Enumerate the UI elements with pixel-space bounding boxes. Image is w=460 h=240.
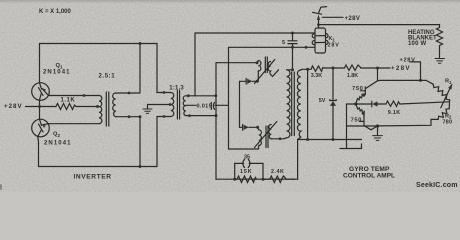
wire to R1 wiper with arrow xyxy=(400,102,450,104)
svg-text:5V: 5V xyxy=(319,98,326,104)
svg-text:1:1.3: 1:1.3 xyxy=(169,85,184,91)
diode D2 xyxy=(240,125,258,131)
junction node xyxy=(279,137,282,140)
wire T4 right bottom to output rail xyxy=(297,140,299,180)
junction node xyxy=(306,138,309,141)
junction node xyxy=(256,126,259,129)
mag-amp MA1 core xyxy=(264,57,266,73)
transistor Q4 (lower 750) xyxy=(356,104,378,130)
wire lower return y=126 xyxy=(347,125,378,127)
wire rail C y=62.7 xyxy=(216,62,258,64)
transformer T1 primary winding (left) xyxy=(99,96,102,124)
svg-text:780: 780 xyxy=(443,119,453,125)
mag-amp MA1 control winding (right) xyxy=(268,62,270,75)
junction node xyxy=(376,67,379,70)
wire x=228.5 vertical railB down to magamp2 xyxy=(229,47,259,149)
transformer T1 core xyxy=(105,92,107,126)
svg-text:3.3K: 3.3K xyxy=(311,73,322,79)
wire T2 secondary top tap xyxy=(186,95,216,97)
junction node xyxy=(233,178,236,181)
junction node xyxy=(128,92,131,95)
wire Q1 collector vertical to top rail xyxy=(39,44,41,83)
svg-text:K1: K1 xyxy=(329,36,336,42)
transformer T4 core xyxy=(291,72,293,136)
resistor 1.1K xyxy=(26,104,100,110)
wire collector to bridge top y=80.4 xyxy=(378,79,421,81)
svg-text:2.5:1: 2.5:1 xyxy=(99,73,116,79)
wire T2 secondary bottom tap xyxy=(186,115,216,117)
junction node xyxy=(169,103,172,106)
svg-text:+28V: +28V xyxy=(4,103,23,110)
svg-text:1.8K: 1.8K xyxy=(347,73,358,79)
diode D1 xyxy=(240,79,258,85)
wire bottom bus y=139.5 xyxy=(298,139,347,141)
paper background xyxy=(0,0,460,192)
wire x=157 from top rail down to T2 xyxy=(157,44,171,93)
svg-text:2N1041: 2N1041 xyxy=(44,141,72,147)
junction node xyxy=(256,61,259,64)
svg-text:CONTROL AMPL: CONTROL AMPL xyxy=(343,173,395,180)
svg-text:SeekIC.com: SeekIC.com xyxy=(416,182,458,189)
transformer T2 primary winding (left) xyxy=(171,93,174,117)
svg-text:15K: 15K xyxy=(240,169,253,175)
wire MA2 gate bottom to railB strap xyxy=(258,145,260,149)
svg-text:5: 5 xyxy=(282,40,285,46)
svg-text:+28V: +28V xyxy=(391,65,411,72)
svg-text:750: 750 xyxy=(351,117,362,123)
wire MA1 gate bottom to diode node xyxy=(257,71,259,81)
junction node xyxy=(419,79,422,82)
svg-text:750: 750 xyxy=(352,86,363,92)
wire MA1 control bottom to T4 top wire xyxy=(271,70,279,77)
thermistor R1 wiper arrow xyxy=(441,88,450,108)
transformer T4 left winding xyxy=(287,70,290,138)
scan edge artifacts xyxy=(0,184,2,190)
svg-text:+28V: +28V xyxy=(400,57,416,63)
transformer T1 secondary winding (right) xyxy=(113,93,116,117)
relay K1 coil box xyxy=(312,28,328,53)
svg-text:INVERTER: INVERTER xyxy=(74,173,112,180)
junction node xyxy=(256,80,259,83)
wire T4 right bottom down xyxy=(298,137,301,140)
svg-text:35: 35 xyxy=(244,154,250,160)
node dot ground junction xyxy=(376,124,379,127)
junction node xyxy=(332,67,335,70)
svg-text:28V: 28V xyxy=(328,43,340,49)
transistor Q1 xyxy=(32,83,50,101)
wire bottom rail y=164.5 xyxy=(39,166,158,168)
svg-text:100 W: 100 W xyxy=(408,41,426,47)
svg-text:2.4K: 2.4K xyxy=(271,169,284,175)
svg-text:Q1: Q1 xyxy=(56,63,64,69)
junction node xyxy=(291,68,294,71)
wire strap vertical x=140 down xyxy=(139,117,141,167)
node dot T1 strap on top rail xyxy=(139,42,142,45)
wire Q2 base to T1 xyxy=(48,123,99,125)
node dot emitter junction xyxy=(354,102,357,105)
ground symbol (T2 center tap) xyxy=(143,109,152,113)
node dot heater tap on armature xyxy=(317,23,320,26)
wire x=157 from bottom rail up to T2 xyxy=(157,117,171,167)
wire emitter vertical between Q1 and Q2 xyxy=(39,100,41,119)
wire MA1 top to rail C xyxy=(257,61,258,63)
node dot on Q1 base wire xyxy=(83,94,86,97)
svg-text:1.1K: 1.1K xyxy=(61,97,76,103)
resistor 15K xyxy=(235,176,257,182)
capacitor 5 (filter) xyxy=(288,33,297,70)
mag-amp MA2 core xyxy=(265,126,267,148)
resistor 2.4K xyxy=(263,176,295,182)
junction node xyxy=(188,114,191,117)
diode D3 xyxy=(356,101,386,106)
junction node xyxy=(214,94,217,97)
potentiometer R2 780 xyxy=(378,100,450,126)
junction node xyxy=(291,46,294,49)
wire left from emitter node xyxy=(347,103,356,105)
wire heater feed y=24.6 xyxy=(319,24,440,26)
mag-amp MA1 gate winding (left) xyxy=(258,61,261,71)
wire x=346.5 vertical down xyxy=(346,104,348,140)
mag-amp MA2 control winding (right) xyxy=(269,125,271,139)
wire rail A y=33 xyxy=(195,32,315,34)
junction node xyxy=(163,115,166,118)
transformer T4 right winding xyxy=(297,70,300,137)
junction node xyxy=(128,115,131,118)
node dot cap tap on rail A xyxy=(291,32,294,35)
wire T4 left bottom xyxy=(284,138,287,139)
junction node xyxy=(332,138,335,141)
relay K1 contact and armature xyxy=(313,7,344,28)
capacitor 0.015 on middle tap xyxy=(186,104,196,106)
svg-text:0.015: 0.015 xyxy=(197,103,213,109)
node dot T1 strap on bottom rail xyxy=(139,165,142,168)
junction node xyxy=(306,68,309,71)
thermistor R1 xyxy=(421,80,450,99)
wire strap vertical x=140 up xyxy=(139,44,141,94)
junction node xyxy=(139,115,142,118)
wire diode strap x=239.5 xyxy=(239,81,241,127)
mag-amp MA2 gate winding (left) xyxy=(259,130,262,146)
svg-text:+28V: +28V xyxy=(345,16,361,22)
wire staircase stub xyxy=(347,140,362,149)
ground (heating blanket) xyxy=(435,59,445,64)
svg-text:K = X 1,000: K = X 1,000 xyxy=(39,9,72,15)
transistor Q2 xyxy=(32,119,50,137)
wire x=216 vertical down to bottom xyxy=(215,63,217,180)
mag-amp MA2 saturable slash xyxy=(255,122,277,148)
wire T4 right top to 3.3K xyxy=(301,68,311,71)
wire T4 left top to cap/railB vertical xyxy=(287,69,293,71)
wire bottom rail y=179.2 xyxy=(216,178,298,180)
ground (amplifier) xyxy=(373,136,383,141)
zener diode 5V xyxy=(330,68,336,140)
wire x=307.6 vertical xyxy=(307,69,309,139)
junction node xyxy=(187,94,190,97)
wire MA2 gate top to D2 xyxy=(258,127,259,130)
wire x=420.5 vertical up and left stub xyxy=(410,62,421,81)
wire T2 primary center tap to ground xyxy=(148,105,171,109)
wire Q2 emitter down to bottom rail xyxy=(37,137,40,167)
svg-text:2N1041: 2N1041 xyxy=(43,69,71,75)
svg-text:R1: R1 xyxy=(445,79,452,85)
resistor 3.3K xyxy=(311,66,324,71)
wire T1 secondary bottom to strap xyxy=(116,116,140,118)
wire Q1 base to T1 xyxy=(48,95,99,97)
wire x=195 vertical xyxy=(194,33,196,96)
transformer T2 secondary winding (right) xyxy=(183,96,186,116)
junction node xyxy=(215,114,218,117)
junction node xyxy=(163,91,166,94)
resistor 9.1K xyxy=(386,101,400,106)
wire MA2 control bottom to T4 bottom wire xyxy=(271,138,284,140)
resistor 1.8K xyxy=(345,65,361,70)
capacitor 35 branch xyxy=(235,159,263,179)
svg-text:9.1K: 9.1K xyxy=(388,110,401,116)
svg-text:Q2: Q2 xyxy=(53,132,61,138)
transistor Q3 (upper 750) xyxy=(356,68,378,104)
transformer T2 core xyxy=(176,91,178,120)
junction node xyxy=(305,46,308,49)
wire T1 secondary top to strap xyxy=(116,92,140,94)
wire rail B y=47.3 xyxy=(229,46,316,48)
junction node xyxy=(262,178,265,181)
resistor heating blanket xyxy=(436,25,442,58)
wire top rail y=43.5 xyxy=(40,43,158,45)
mag-amp MA1 saturable slash xyxy=(255,60,275,84)
wire stub to ground xyxy=(377,126,379,135)
